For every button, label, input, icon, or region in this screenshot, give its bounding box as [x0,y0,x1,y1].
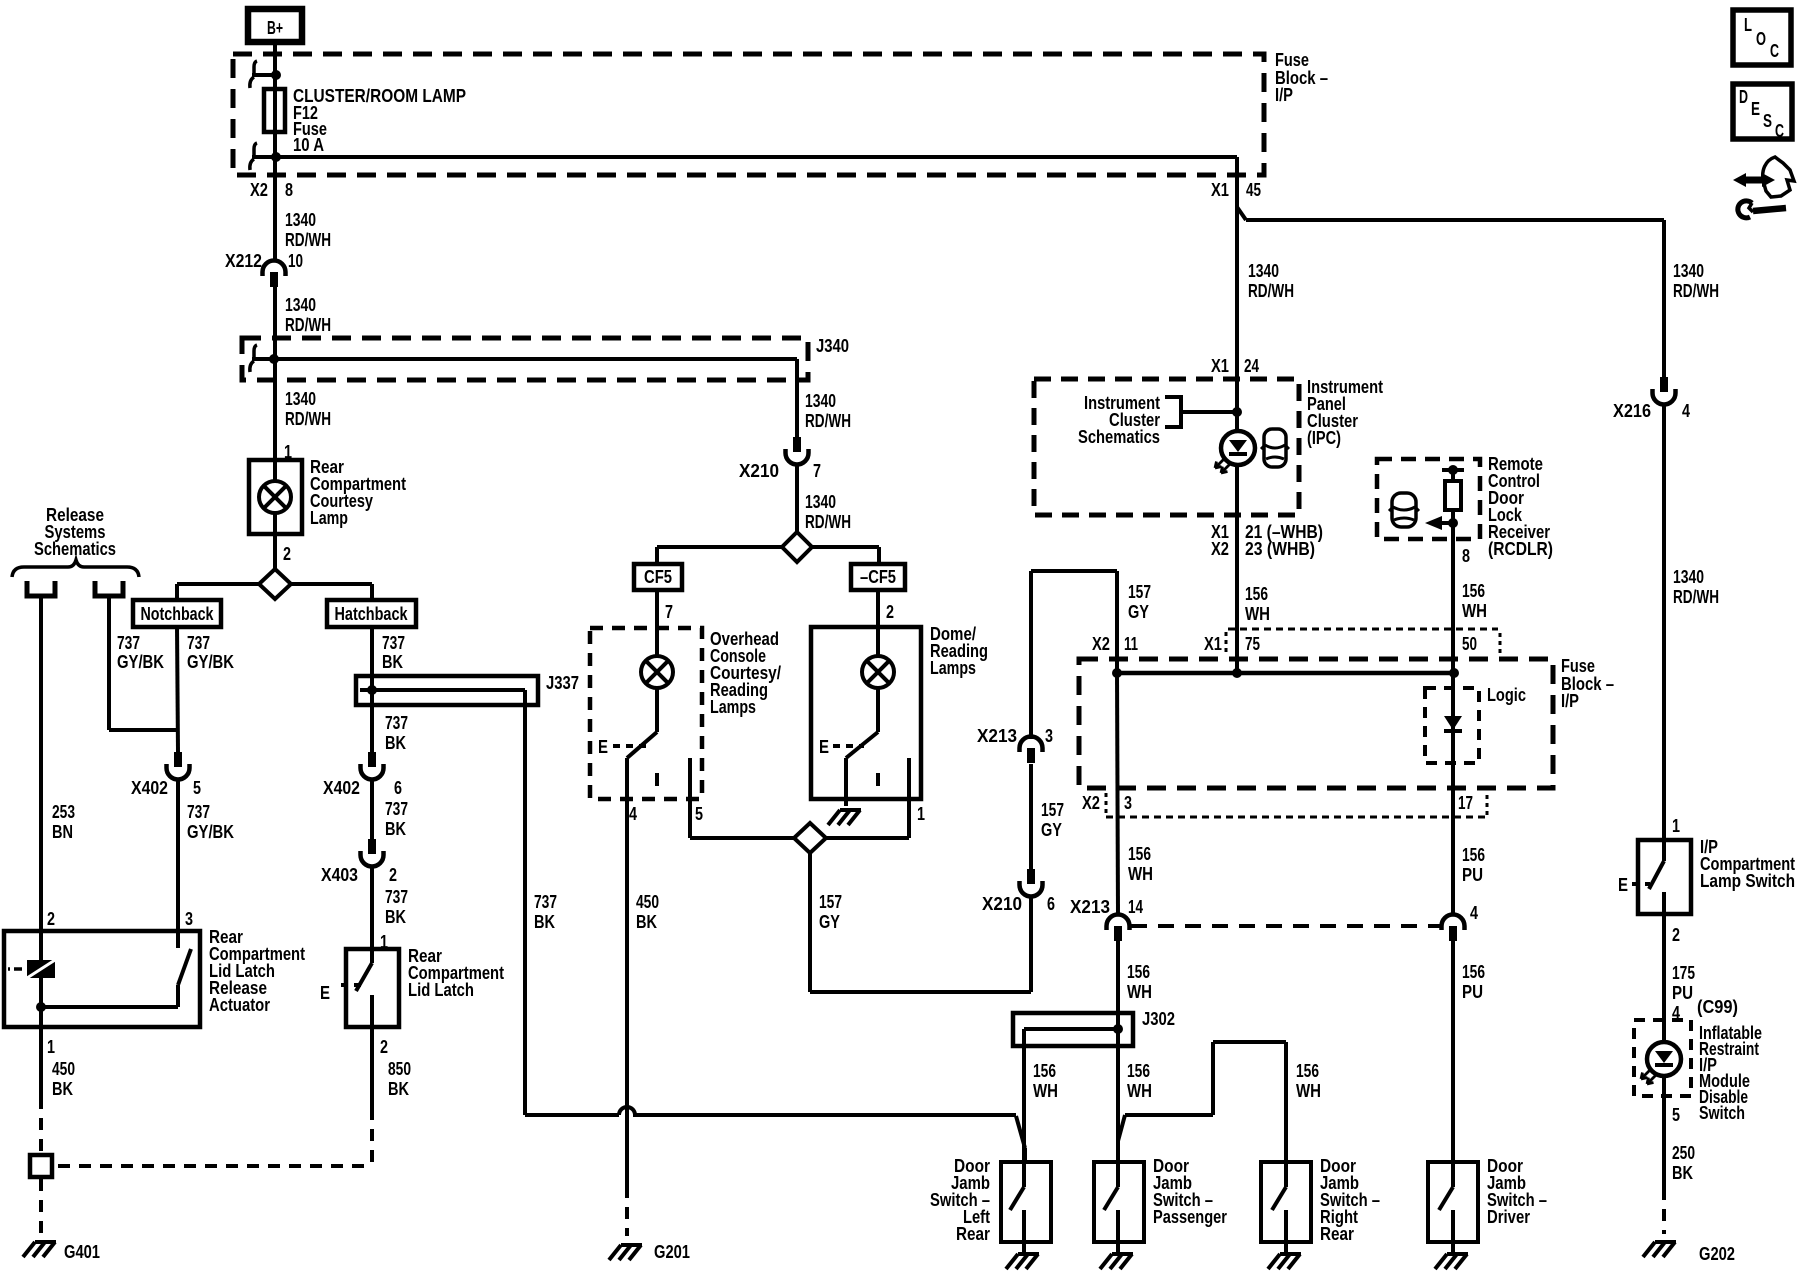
svg-text:GY: GY [819,912,840,932]
svg-text:Notchback: Notchback [141,604,215,624]
svg-text:157: 157 [819,892,842,912]
svg-text:2: 2 [283,544,291,564]
svg-text:WH: WH [1127,1081,1152,1101]
svg-text:PU: PU [1672,983,1693,1003]
svg-text:1: 1 [1672,816,1680,836]
svg-text:Schematics: Schematics [1078,427,1160,447]
svg-text:E: E [1751,99,1760,119]
svg-text:24: 24 [1244,356,1259,376]
svg-text:(IPC): (IPC) [1307,428,1341,448]
svg-text:Passenger: Passenger [1153,1207,1227,1227]
svg-text:X212: X212 [225,251,262,271]
svg-text:X2: X2 [1211,539,1229,559]
svg-text:BK: BK [534,912,555,932]
svg-text:3: 3 [1124,793,1132,813]
svg-text:RD/WH: RD/WH [1673,281,1719,301]
svg-text:5: 5 [1672,1105,1680,1125]
svg-text:2: 2 [47,909,55,929]
svg-text:X210: X210 [739,461,779,481]
svg-text:17: 17 [1458,793,1473,813]
svg-text:Logic: Logic [1487,685,1526,705]
svg-text:156: 156 [1127,962,1150,982]
svg-text:WH: WH [1033,1081,1058,1101]
svg-text:450: 450 [636,892,659,912]
svg-text:8: 8 [285,180,293,200]
svg-text:156: 156 [1462,962,1485,982]
svg-text:BN: BN [52,822,73,842]
svg-text:10: 10 [288,251,303,271]
svg-text:4: 4 [629,804,637,824]
svg-text:3: 3 [1045,726,1053,746]
svg-text:GY: GY [1041,820,1062,840]
svg-text:4: 4 [1682,401,1690,421]
svg-text:GY/BK: GY/BK [117,652,164,672]
svg-text:RD/WH: RD/WH [805,512,851,532]
svg-text:I/P: I/P [1275,85,1293,105]
svg-text:253: 253 [52,802,75,822]
svg-text:737: 737 [117,633,140,653]
svg-text:(C99): (C99) [1697,997,1738,1017]
svg-text:737: 737 [187,633,210,653]
svg-text:PU: PU [1462,982,1483,1002]
svg-text:1: 1 [917,804,925,824]
svg-text:2: 2 [886,602,894,622]
svg-text:RD/WH: RD/WH [1248,281,1294,301]
svg-text:156: 156 [1462,581,1485,601]
svg-text:1340: 1340 [285,295,316,315]
svg-text:E: E [320,983,330,1003]
svg-text:Lamps: Lamps [710,697,756,717]
svg-text:X1: X1 [1211,356,1229,376]
svg-text:23 (WHB): 23 (WHB) [1245,539,1315,559]
svg-text:1340: 1340 [285,389,316,409]
svg-text:WH: WH [1462,601,1487,621]
svg-text:10 A: 10 A [293,135,324,155]
svg-text:BK: BK [1672,1163,1693,1183]
svg-text:I/P: I/P [1561,691,1579,711]
svg-text:14: 14 [1128,897,1143,917]
svg-text:RD/WH: RD/WH [285,409,331,429]
svg-text:8: 8 [1462,546,1470,566]
svg-text:5: 5 [695,804,703,824]
svg-text:RD/WH: RD/WH [285,230,331,250]
svg-text:GY/BK: GY/BK [187,822,234,842]
svg-text:75: 75 [1245,634,1260,654]
svg-text:X2: X2 [1082,793,1100,813]
svg-text:X213: X213 [977,726,1017,746]
svg-text:X1: X1 [1211,180,1229,200]
svg-text:1: 1 [47,1037,55,1057]
svg-text:C: C [1775,121,1784,141]
svg-text:BK: BK [388,1079,409,1099]
svg-text:737: 737 [385,799,408,819]
svg-text:156: 156 [1296,1061,1319,1081]
svg-text:Rear: Rear [1320,1224,1354,1244]
svg-text:737: 737 [382,633,405,653]
svg-text:Actuator: Actuator [209,995,270,1015]
svg-text:PU: PU [1462,865,1483,885]
svg-text:Switch: Switch [1699,1103,1745,1123]
svg-text:7: 7 [665,602,673,622]
svg-text:1340: 1340 [285,210,316,230]
svg-text:E: E [819,737,829,757]
svg-text:WH: WH [1127,982,1152,1002]
svg-text:157: 157 [1041,800,1064,820]
svg-text:3: 3 [185,909,193,929]
svg-text:1340: 1340 [805,391,836,411]
svg-text:WH: WH [1245,604,1270,624]
svg-text:1340: 1340 [1673,261,1704,281]
svg-text:Lamp: Lamp [310,508,348,528]
svg-text:Lamps: Lamps [930,658,976,678]
svg-text:X402: X402 [131,778,168,798]
svg-text:RD/WH: RD/WH [1673,587,1719,607]
svg-text:–CF5: –CF5 [860,567,896,587]
svg-text:X2: X2 [1092,634,1110,654]
svg-text:737: 737 [534,892,557,912]
svg-text:157: 157 [1128,582,1151,602]
svg-text:CLUSTER/ROOM LAMP: CLUSTER/ROOM LAMP [293,86,466,106]
svg-text:4: 4 [1470,903,1478,923]
svg-text:RD/WH: RD/WH [285,315,331,335]
svg-text:737: 737 [385,713,408,733]
svg-text:X1: X1 [1204,634,1222,654]
svg-text:Lamp Switch: Lamp Switch [1700,871,1795,891]
svg-text:Fuse: Fuse [1275,50,1309,70]
svg-text:X403: X403 [321,865,358,885]
svg-text:X213: X213 [1070,897,1110,917]
svg-text:850: 850 [388,1059,411,1079]
svg-text:G201: G201 [654,1242,690,1262]
svg-text:O: O [1756,29,1766,49]
svg-text:1340: 1340 [1673,567,1704,587]
svg-text:11: 11 [1124,634,1138,654]
svg-text:156: 156 [1128,844,1151,864]
svg-text:156: 156 [1127,1061,1150,1081]
svg-text:J302: J302 [1142,1009,1175,1029]
svg-text:1340: 1340 [1248,261,1279,281]
svg-text:BK: BK [382,652,403,672]
svg-text:Driver: Driver [1487,1207,1530,1227]
svg-text:X2: X2 [250,180,268,200]
svg-text:E: E [1618,875,1628,895]
svg-text:BK: BK [52,1079,73,1099]
svg-text:1340: 1340 [805,492,836,512]
svg-text:156: 156 [1245,584,1268,604]
svg-text:J337: J337 [546,673,579,693]
svg-text:2: 2 [1672,925,1680,945]
svg-text:Schematics: Schematics [34,539,116,559]
svg-text:BK: BK [385,733,406,753]
svg-text:WH: WH [1296,1081,1321,1101]
svg-text:G401: G401 [64,1242,100,1262]
svg-text:S: S [1763,111,1772,131]
svg-text:L: L [1744,15,1752,35]
svg-text:WH: WH [1128,864,1153,884]
svg-text:BK: BK [385,819,406,839]
svg-text:6: 6 [394,778,402,798]
svg-text:Lid Latch: Lid Latch [408,980,474,1000]
svg-text:G202: G202 [1699,1244,1735,1264]
svg-text:2: 2 [380,1037,388,1057]
svg-text:RD/WH: RD/WH [805,411,851,431]
svg-text:BK: BK [636,912,657,932]
svg-text:6: 6 [1047,894,1055,914]
svg-text:Rear: Rear [956,1224,990,1244]
svg-text:156: 156 [1462,845,1485,865]
svg-text:7: 7 [813,461,821,481]
svg-text:GY: GY [1128,602,1149,622]
svg-text:CF5: CF5 [644,567,672,587]
svg-text:E: E [598,737,608,757]
svg-text:50: 50 [1462,634,1477,654]
svg-text:X210: X210 [982,894,1022,914]
svg-text:BK: BK [385,907,406,927]
svg-text:45: 45 [1246,180,1261,200]
svg-text:X216: X216 [1613,401,1651,421]
svg-text:737: 737 [187,802,210,822]
svg-text:Fuse: Fuse [1561,656,1595,676]
svg-text:B+: B+ [267,18,283,38]
svg-text:C: C [1770,41,1779,61]
svg-text:156: 156 [1033,1061,1056,1081]
svg-text:X402: X402 [323,778,360,798]
svg-text:GY/BK: GY/BK [187,652,234,672]
svg-text:J340: J340 [816,336,849,356]
svg-text:5: 5 [193,778,201,798]
svg-text:Hatchback: Hatchback [335,604,409,624]
svg-text:250: 250 [1672,1143,1695,1163]
svg-text:175: 175 [1672,963,1695,983]
svg-text:450: 450 [52,1059,75,1079]
svg-text:2: 2 [389,865,397,885]
svg-text:(RCDLR): (RCDLR) [1488,539,1553,559]
svg-text:737: 737 [385,887,408,907]
svg-text:D: D [1739,87,1748,107]
